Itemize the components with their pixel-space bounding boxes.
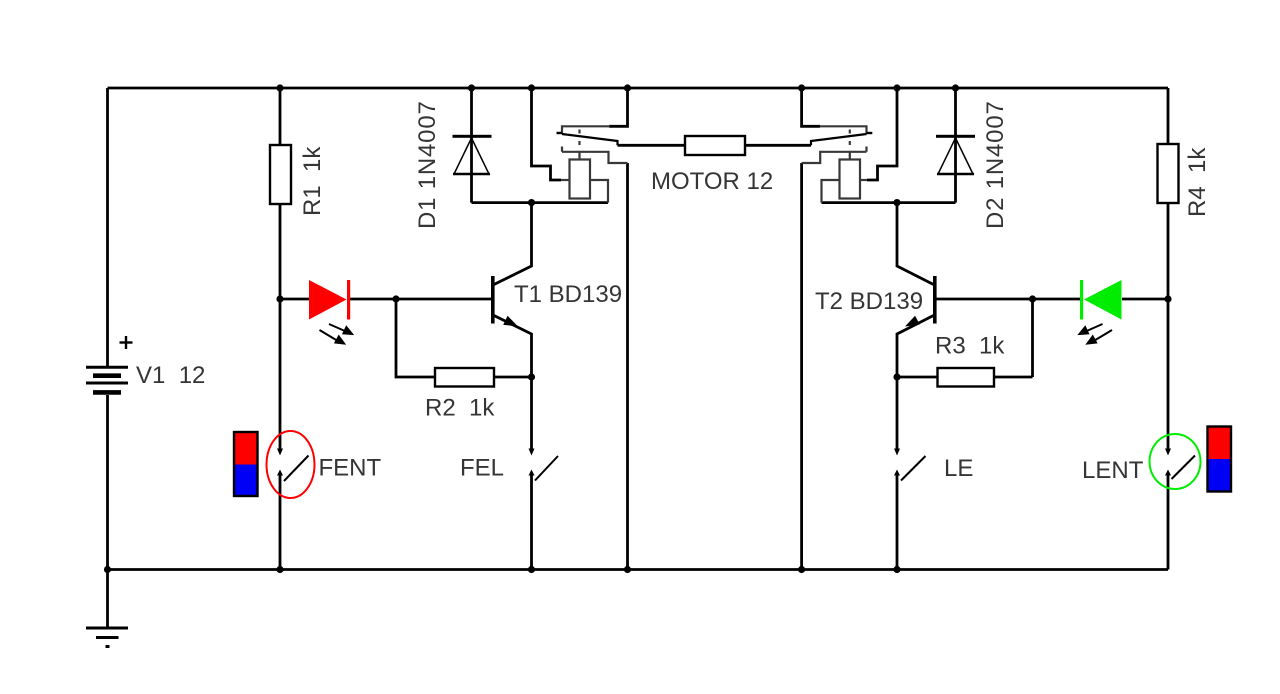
wire R2 right lead xyxy=(494,376,532,379)
wire node down to R2 xyxy=(396,299,435,377)
resistor R4 xyxy=(1158,144,1179,203)
resistor R2 xyxy=(435,368,494,387)
wire +12V to relay2 coil pin xyxy=(867,88,897,180)
resistor R3 xyxy=(938,368,995,387)
wire relay1 NO throw to +12V xyxy=(609,88,628,126)
wire T2 collector xyxy=(897,203,934,285)
battery V1 xyxy=(86,336,133,392)
junction dots bottom rail xyxy=(104,566,901,573)
wire FEL lower lead xyxy=(530,476,533,570)
wire FENT upper lead xyxy=(279,299,282,449)
magnet FENT xyxy=(234,432,258,496)
wire LE upper lead xyxy=(896,377,899,449)
svg-text:MOTOR 12: MOTOR 12 xyxy=(651,168,773,195)
wire FENT lower lead xyxy=(279,476,282,570)
wire R4 to LED node xyxy=(1167,203,1170,299)
wire relay2 NO throw to +12V xyxy=(802,88,820,126)
wire relay1 NC throw to ground rail xyxy=(626,163,629,570)
wire R1 bottom lead to LED node xyxy=(279,204,282,299)
wire R3 left lead xyxy=(897,376,938,379)
wire relay1 coil net bottom xyxy=(472,201,609,204)
svg-text:T2 BD139: T2 BD139 xyxy=(815,288,923,315)
svg-text:R3 1k: R3 1k xyxy=(935,333,1005,360)
svg-text:LE: LE xyxy=(944,455,973,482)
LED green light arrows xyxy=(1080,324,1113,344)
junction dots middle xyxy=(276,199,1171,381)
svg-text:D2 1N4007: D2 1N4007 xyxy=(982,100,1009,229)
LED green LED2 xyxy=(1080,280,1122,320)
wire left rail lower xyxy=(106,395,109,570)
wire top rail xyxy=(108,87,1169,90)
wire R3 right lead xyxy=(994,376,1033,379)
svg-text:LENT: LENT xyxy=(1082,457,1144,484)
reed switch FENT xyxy=(267,431,315,498)
relay RL2 actuator dashed xyxy=(849,130,851,157)
wire T1 collector xyxy=(494,203,532,285)
wire D1 vertical xyxy=(470,88,473,203)
wire bottom rail xyxy=(108,568,1169,571)
resistor R1 xyxy=(270,145,291,204)
svg-text:R1 1k: R1 1k xyxy=(299,146,326,216)
relay RL2 coil xyxy=(822,155,868,203)
relay RL1 actuator dashed xyxy=(578,130,580,157)
svg-text:FENT: FENT xyxy=(319,455,382,482)
relay RL2 contacts xyxy=(802,126,867,163)
transistor T1 xyxy=(491,276,518,327)
wire green LED anode xyxy=(1122,298,1168,301)
wire T1 emitter xyxy=(494,316,532,378)
switch LE xyxy=(894,449,926,481)
wire D2 vertical xyxy=(954,88,957,203)
motor M (MOTOR 12) xyxy=(685,136,745,155)
wire T2 base xyxy=(936,298,1033,301)
wire motor left lead xyxy=(618,144,686,147)
wire LE lower lead xyxy=(896,476,899,570)
LED red light arrows xyxy=(320,324,353,344)
svg-text:R2 1k: R2 1k xyxy=(425,395,495,422)
wire node down to R3 xyxy=(1031,299,1034,377)
wire relay2 coil net bottom xyxy=(822,201,956,204)
switch FEL xyxy=(529,449,559,481)
reed switch LENT xyxy=(1150,434,1201,489)
wire LENT to bottom rail xyxy=(1167,476,1170,570)
wire LED cathode to node xyxy=(349,298,396,301)
diode D2 xyxy=(936,135,975,174)
svg-text:V1 12: V1 12 xyxy=(136,362,205,389)
wire left rail upper xyxy=(106,88,109,366)
wire R1 top lead xyxy=(279,88,282,145)
relay RL1 contacts xyxy=(562,126,628,163)
wire LED anode xyxy=(280,298,309,301)
junction dots top rail xyxy=(276,84,959,91)
transistor T2 xyxy=(905,276,937,327)
svg-text:R4 1k: R4 1k xyxy=(1184,147,1211,217)
wire ground lead xyxy=(106,570,109,628)
wire motor right lead xyxy=(745,144,811,147)
wire relay2 NC throw to ground rail xyxy=(800,163,803,570)
wire LED node to LENT xyxy=(1167,299,1170,449)
wire node to T1 base xyxy=(396,298,491,301)
svg-text:FEL: FEL xyxy=(460,455,504,482)
wire +12V to relay1 coil pin xyxy=(532,88,562,180)
diode D1 xyxy=(453,135,492,174)
wire T2 emitter xyxy=(897,316,934,378)
svg-text:D1 1N4007: D1 1N4007 xyxy=(414,100,441,229)
ground xyxy=(86,628,128,647)
wire right rail top to R4 xyxy=(1167,88,1170,144)
relay RL1 coil xyxy=(561,155,608,203)
relay RL1 common arm xyxy=(557,133,618,145)
LED red LED1 xyxy=(309,280,350,320)
wire FEL upper lead xyxy=(530,377,533,449)
relay RL2 common arm xyxy=(811,133,872,145)
magnet LENT xyxy=(1208,427,1232,492)
svg-text:T1 BD139: T1 BD139 xyxy=(514,281,622,308)
wire green LED cathode xyxy=(1033,298,1081,301)
